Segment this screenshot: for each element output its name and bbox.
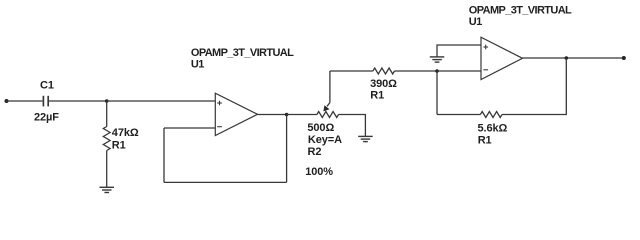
wire 5.6kΩ to node D xyxy=(502,58,566,115)
U1 opamp label (second) xyxy=(469,5,572,29)
wire feedback node C down xyxy=(436,71,438,115)
node D junction (output) xyxy=(565,56,569,60)
wire node C to R1 5.6kΩ xyxy=(437,114,480,116)
potentiometer R2 500Ω xyxy=(317,71,339,118)
ground (right of R2) xyxy=(358,136,373,141)
wire R2 wiper to 390Ω resistor xyxy=(330,70,373,72)
svg-text:390Ω: 390Ω xyxy=(370,78,397,90)
svg-text:R2: R2 xyxy=(308,146,322,158)
op-amp U1 (second stage) xyxy=(481,37,523,79)
svg-text:R1: R1 xyxy=(370,90,384,102)
wire node A down to R1 xyxy=(106,101,108,127)
svg-text:5.6kΩ: 5.6kΩ xyxy=(478,123,508,135)
wire 390Ω to U1 second - input xyxy=(395,70,482,72)
U1 opamp label (first) xyxy=(191,47,294,71)
ground (U1 second + input) xyxy=(430,57,445,62)
ground (below R1) xyxy=(100,187,115,192)
svg-text:R1: R1 xyxy=(112,139,126,151)
node C junction xyxy=(435,69,439,73)
node A junction xyxy=(105,99,109,103)
wire feedback up xyxy=(163,128,165,182)
wire U1 output xyxy=(258,114,287,116)
svg-text:C1: C1 xyxy=(40,80,54,92)
resistor R1 390Ω (series) xyxy=(373,68,395,74)
output terminal node xyxy=(622,56,626,60)
svg-text:OPAMP_3T_VIRTUAL: OPAMP_3T_VIRTUAL xyxy=(191,47,294,59)
wire input to C1 xyxy=(7,100,43,102)
wire feedback bottom xyxy=(164,181,287,183)
svg-text:U1: U1 xyxy=(191,59,204,71)
capacitor C1 xyxy=(43,96,48,107)
op-amp U1 (first stage) xyxy=(215,93,257,135)
resistor R1 5.6kΩ (feedback) xyxy=(480,112,502,118)
svg-text:Key=A: Key=A xyxy=(308,134,342,146)
wire U1 second output xyxy=(523,57,624,59)
input terminal node xyxy=(5,99,9,103)
wire feedback U1 output down xyxy=(286,115,288,183)
node B junction (U1 output) xyxy=(285,113,289,117)
wire R2 to ground xyxy=(339,115,366,137)
svg-text:U1: U1 xyxy=(469,16,482,28)
resistor R1 47kΩ (vertical) xyxy=(103,127,110,151)
wire node A to U1 + input xyxy=(107,100,216,102)
svg-text:100%: 100% xyxy=(305,166,333,178)
wire feedback to U1 - input xyxy=(164,127,215,129)
svg-text:OPAMP_3T_VIRTUAL: OPAMP_3T_VIRTUAL xyxy=(469,5,572,17)
svg-text:500Ω: 500Ω xyxy=(307,122,334,134)
wire ground to U1 second + input xyxy=(437,45,481,57)
svg-text:22µF: 22µF xyxy=(34,112,59,124)
svg-text:47kΩ: 47kΩ xyxy=(112,127,139,139)
wire R1 to ground xyxy=(106,151,108,188)
wire C1 to node A xyxy=(49,100,107,102)
svg-text:R1: R1 xyxy=(478,134,492,146)
wire node B to R2 xyxy=(287,114,317,116)
